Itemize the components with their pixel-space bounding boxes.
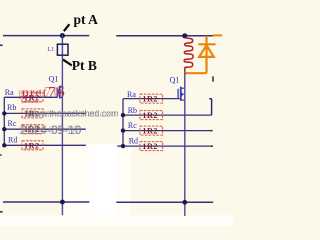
pointer line to Pt B xyxy=(63,60,72,66)
wire: left edge stub y211.8 xyxy=(0,211,3,213)
pointer line to pt A xyxy=(64,24,70,31)
watermark www.thebackshed.com xyxy=(25,109,119,119)
svg-text:1R2: 1R2 xyxy=(142,111,158,120)
svg-text:1R2: 1R2 xyxy=(142,127,158,136)
wire: gate bus vertical (left) xyxy=(3,97,5,145)
svg-text:2024-09-10: 2024-09-10 xyxy=(21,123,82,137)
svg-text:Rc: Rc xyxy=(128,121,137,130)
white margin band between sheets (soft) xyxy=(64,149,131,216)
wire: top rail (left circuit) xyxy=(3,35,89,37)
svg-text:Q1: Q1 xyxy=(49,74,59,83)
white bottom margin strip xyxy=(0,215,233,226)
wire: Ra row / gate lead (left) xyxy=(4,96,57,98)
svg-text:1R2: 1R2 xyxy=(142,142,158,151)
wire: Rb row (right) xyxy=(123,114,212,116)
node: bus-Rd junction (right) xyxy=(121,144,125,148)
wire: Q1 source down to bottom rail xyxy=(61,86,63,215)
svg-text:Www.thebackshed.com: Www.thebackshed.com xyxy=(26,109,118,119)
svg-text:Rb: Rb xyxy=(128,106,137,115)
wire: orange stub at right edge of top rail xyxy=(213,34,223,36)
wire: left edge stub y45 xyxy=(0,44,3,46)
resistor Ra (right) value box 1R2 xyxy=(140,94,163,104)
wire: drain riser above L1 xyxy=(61,36,63,56)
wire: Rb row (left) xyxy=(4,112,86,114)
node: bus-Rd junction (left) xyxy=(2,143,6,147)
wire: Rc row (left) xyxy=(4,128,86,130)
svg-text:1R2: 1R2 xyxy=(24,141,40,150)
pin tip: Rd end xyxy=(211,145,213,147)
svg-text:pret76: pret76 xyxy=(22,84,66,101)
resistor Rb (right) value box 1R2 xyxy=(140,111,163,121)
node: bus-Rb junction (right) xyxy=(121,113,125,117)
svg-text:Rd: Rd xyxy=(129,137,138,146)
wire: L1 to Q1 drain xyxy=(61,55,63,86)
node: junction pt A on top rail xyxy=(60,33,65,38)
wire: Rc row (right) xyxy=(123,130,212,132)
resistor Rb (left) value box 1R2 xyxy=(22,109,43,119)
resistor Rc (right) value box 1R2 xyxy=(140,126,163,136)
wire: Ra row / gate lead (right) xyxy=(123,98,180,100)
svg-text:pt A: pt A xyxy=(74,12,99,27)
wire: top rail (right circuit) xyxy=(116,35,213,37)
svg-text:Ra: Ra xyxy=(127,90,136,99)
node: source-bottom rail junction (left) xyxy=(60,200,65,205)
wire: coil bottom to Q1 drain (right) xyxy=(184,72,186,88)
wire: gate bus vertical (right) xyxy=(122,99,124,147)
diode: hand-drawn orange flyback diode xyxy=(184,36,216,73)
wire: Rb riser top tick xyxy=(209,98,211,100)
wire: Rd row (right) xyxy=(123,145,213,147)
wire: left edge stub y155 xyxy=(0,154,2,156)
inductor: hand-drawn red coil xyxy=(184,38,193,73)
node: junction inductor top (right) xyxy=(182,33,187,38)
sheet background xyxy=(0,0,233,226)
svg-text:Rd: Rd xyxy=(8,136,17,145)
node: bus-Rc junction (right) xyxy=(121,128,125,132)
watermark date 2024-09-10 xyxy=(18,123,82,137)
svg-text:Pt B: Pt B xyxy=(72,58,97,73)
wire: Rb riser (right) xyxy=(211,99,213,115)
svg-text:Rc: Rc xyxy=(8,119,17,128)
watermark pret76 xyxy=(18,84,66,101)
resistor Ra (left) value box 1R2 xyxy=(22,93,43,103)
wire: bottom rail (left circuit) xyxy=(3,201,89,203)
svg-text:Rb: Rb xyxy=(7,103,16,112)
wire: Rd stub from white band (right) xyxy=(117,145,123,147)
wire: bottom rail (right circuit) xyxy=(116,201,213,203)
transistor Q1 right (NMOS) xyxy=(178,87,185,101)
stray pin dash right edge xyxy=(212,76,214,81)
node: source-bottom rail junction (right) xyxy=(182,200,187,205)
white margin band between sheets (bright) xyxy=(89,144,118,217)
resistor Rd (right) value box 1R2 xyxy=(140,142,163,152)
svg-text:1R2: 1R2 xyxy=(142,95,158,104)
node: bus-Rc junction (left) xyxy=(2,127,6,131)
resistor Rd (left) value box 1R2 xyxy=(22,141,43,151)
wire: Q1 source down to bottom rail (right) xyxy=(184,88,186,216)
svg-text:Ra: Ra xyxy=(5,88,14,97)
svg-text:Q1: Q1 xyxy=(170,76,180,85)
inductor L1 (box symbol) xyxy=(57,44,68,55)
node: bus-Rb junction (left) xyxy=(2,111,6,115)
transistor Q1 left (NMOS) xyxy=(57,86,62,99)
resistor Rc (left) value box 1R2 xyxy=(22,125,43,135)
wire: Rd row (left) xyxy=(4,144,86,146)
svg-text:pret76mem: pret76mem xyxy=(22,100,39,104)
svg-text:L1: L1 xyxy=(47,46,54,53)
pin tip: Rc end xyxy=(211,130,213,132)
